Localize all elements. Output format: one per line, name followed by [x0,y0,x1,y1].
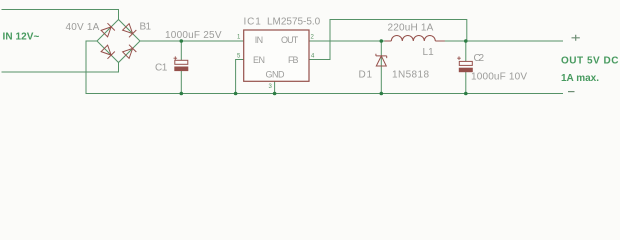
svg-text:FB: FB [288,55,299,65]
svg-text:40V 1A: 40V 1A [66,22,100,33]
svg-text:5: 5 [237,54,241,60]
svg-text:L1: L1 [423,47,435,58]
svg-text:OUT 5V DC: OUT 5V DC [561,56,619,67]
svg-text:1000uF 25V: 1000uF 25V [165,30,222,41]
svg-text:1N5818: 1N5818 [392,70,429,81]
svg-text:4: 4 [311,54,315,60]
svg-text:1: 1 [237,35,241,41]
svg-text:2: 2 [311,35,315,41]
svg-text:1A max.: 1A max. [561,73,599,84]
svg-text:OUT: OUT [281,35,299,45]
svg-text:D1: D1 [359,70,373,81]
svg-text:1000uF 10V: 1000uF 10V [471,72,527,83]
svg-text:IN: IN [255,35,263,45]
svg-text:LM2575-5.0: LM2575-5.0 [267,17,321,28]
svg-text:C2: C2 [474,53,485,64]
svg-text:GND: GND [266,69,286,79]
svg-text:IC1: IC1 [244,17,262,28]
svg-text:220uH 1A: 220uH 1A [388,23,434,34]
svg-text:3: 3 [269,84,273,90]
svg-text:EN: EN [253,55,265,65]
svg-text:B1: B1 [140,22,152,33]
svg-text:IN 12V~: IN 12V~ [3,32,40,43]
svg-text:C1: C1 [155,63,168,74]
